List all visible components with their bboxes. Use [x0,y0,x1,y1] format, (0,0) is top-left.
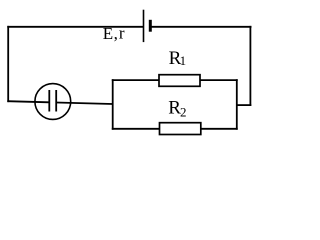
svg-text:,: , [114,24,118,43]
svg-text:1: 1 [180,53,187,68]
svg-text:2: 2 [180,105,187,120]
svg-text:E: E [103,24,113,43]
svg-text:r: r [119,24,125,43]
